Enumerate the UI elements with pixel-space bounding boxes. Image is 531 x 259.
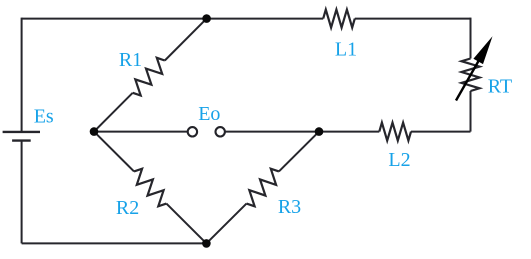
battery Es (short negative plate): [12, 139, 31, 141]
svg-text:R2: R2: [116, 197, 139, 219]
resistor L2: [379, 123, 411, 141]
terminal Eo left (open circle): [188, 127, 197, 136]
wire: right rail from RT down to mid-right corner: [470, 91, 472, 132]
svg-text:L1: L1: [335, 38, 357, 60]
resistor R1 (left node to top node): [94, 19, 207, 132]
node: bottom junction: [202, 239, 211, 248]
wire: right rail from top-right corner down to RT: [470, 18, 472, 59]
wire: left rail from battery down to bottom-left corner: [21, 141, 23, 244]
wire: middle rail from left node to Eo left terminal: [94, 131, 188, 133]
battery Es (long positive plate): [3, 131, 40, 133]
svg-text:R1: R1: [119, 49, 142, 71]
wire: middle rail from right node to L2: [319, 131, 379, 133]
RT wiper arrow head: [473, 36, 492, 64]
wire: middle rail from Eo right terminal to right node: [225, 131, 319, 133]
wire: top rail from top node to L1: [207, 18, 324, 20]
resistor R2 (left node to bottom node): [94, 132, 206, 244]
node: right junction: [315, 127, 324, 136]
svg-text:L2: L2: [388, 149, 410, 171]
RT wiper arrow shaft: [456, 60, 479, 100]
node: top junction: [202, 14, 211, 23]
wire: bottom rail (bottom-left corner to bottom node): [22, 242, 207, 244]
resistor L1: [323, 10, 355, 28]
svg-text:Eo: Eo: [198, 103, 220, 125]
wire: middle rail from L2 to mid-right corner: [411, 131, 471, 133]
resistor RT (vertical zigzag): [462, 59, 480, 92]
terminal Eo right (open circle): [216, 127, 225, 136]
node: left junction: [90, 127, 99, 136]
wire: top rail from L1 to top-right corner: [355, 18, 471, 20]
svg-text:Es: Es: [34, 106, 54, 128]
wire: top rail left segment (top-left corner to top node): [22, 18, 207, 20]
resistor R3 (bottom node to right node): [206, 132, 319, 244]
wire: left rail from top-left corner down to battery: [21, 18, 23, 132]
svg-text:RT: RT: [488, 75, 512, 97]
svg-text:R3: R3: [278, 196, 301, 218]
